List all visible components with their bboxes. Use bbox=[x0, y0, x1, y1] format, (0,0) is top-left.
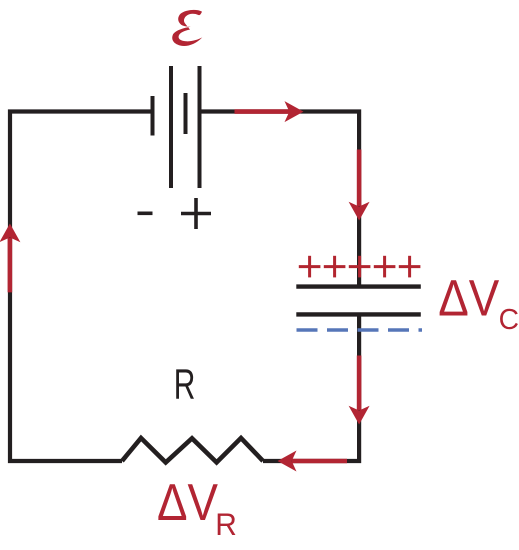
svg-text:R: R bbox=[174, 362, 196, 409]
wire right below capacitor to bottom corner bbox=[263, 316, 359, 461]
current arrow bottom (left-pointing) bbox=[278, 451, 348, 472]
battery E: tall plate 4 bbox=[198, 66, 202, 188]
battery E: short plate 3 bbox=[184, 93, 188, 134]
svg-text:C: C bbox=[499, 304, 519, 336]
EMF script-E label bbox=[172, 10, 202, 46]
resistor R zigzag bbox=[122, 438, 263, 462]
wire left side bbox=[10, 112, 151, 462]
capacitor negative charge dashed line bbox=[297, 328, 423, 331]
label dV_C bbox=[438, 270, 519, 337]
current arrow right upper (down-pointing) bbox=[349, 150, 370, 221]
label dV_R bbox=[157, 473, 237, 542]
svg-text:ΔV: ΔV bbox=[157, 473, 219, 531]
svg-text:R: R bbox=[215, 506, 237, 542]
current arrow right lower (down-pointing) bbox=[349, 356, 370, 425]
wire top right from battery to corner bbox=[201, 112, 359, 285]
battery minus terminal label bbox=[138, 212, 153, 216]
current arrow left (up-pointing) bbox=[0, 224, 20, 293]
current arrow top (right-pointing) bbox=[235, 101, 304, 122]
battery plus terminal label bbox=[181, 198, 211, 229]
battery E: short plate left bbox=[151, 96, 155, 136]
svg-text:ΔV: ΔV bbox=[438, 270, 499, 327]
capacitor bottom plate bbox=[296, 312, 421, 316]
capacitor top plate bbox=[296, 284, 421, 288]
battery E: tall plate 2 bbox=[169, 66, 173, 188]
capacitor plus charges row bbox=[299, 256, 421, 278]
